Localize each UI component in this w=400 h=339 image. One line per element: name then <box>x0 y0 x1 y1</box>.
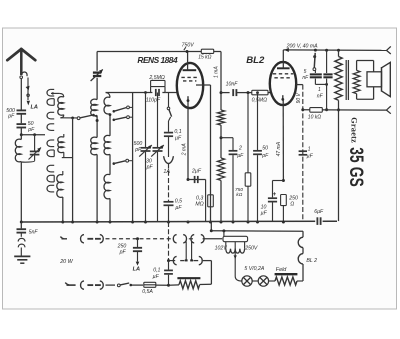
svg-text:10nF: 10nF <box>226 82 239 88</box>
svg-text:1: 1 <box>318 87 321 93</box>
svg-text:0,5MΩ: 0,5MΩ <box>252 97 268 103</box>
svg-text:102V: 102V <box>215 245 228 251</box>
svg-text:5nF: 5nF <box>29 229 39 235</box>
svg-text:BL 2: BL 2 <box>306 258 317 264</box>
svg-text:pF: pF <box>27 127 35 133</box>
svg-text:RENS 1884: RENS 1884 <box>137 55 178 65</box>
svg-text:200 V, 40 mA: 200 V, 40 mA <box>286 43 319 49</box>
svg-text:110pF: 110pF <box>146 98 161 104</box>
svg-text:nF: nF <box>317 94 324 100</box>
svg-text:µF: µF <box>307 153 314 159</box>
svg-text:50: 50 <box>262 146 268 152</box>
svg-text:0,3: 0,3 <box>196 195 203 201</box>
svg-text:20 W: 20 W <box>59 259 73 265</box>
svg-text:nF: nF <box>302 75 309 81</box>
svg-text:1 mA: 1 mA <box>214 66 220 78</box>
svg-text:90 V: 90 V <box>296 92 302 103</box>
svg-text:750V: 750V <box>182 43 195 49</box>
svg-text:2 mA: 2 mA <box>181 143 187 157</box>
svg-text:LA: LA <box>31 105 38 111</box>
svg-text:pF: pF <box>119 249 127 255</box>
svg-text:µF: µF <box>175 205 182 211</box>
svg-text:0,1: 0,1 <box>174 129 181 135</box>
svg-text:2,5MΩ: 2,5MΩ <box>148 75 165 81</box>
svg-text:pF: pF <box>146 164 154 170</box>
svg-text:kΩ: kΩ <box>236 192 242 198</box>
svg-text:pF: pF <box>134 147 142 153</box>
svg-text:µF: µF <box>261 210 268 216</box>
svg-text:0,5: 0,5 <box>175 198 182 204</box>
svg-text:6µF: 6µF <box>314 209 324 215</box>
svg-text:5: 5 <box>304 69 307 75</box>
svg-text:µF: µF <box>237 153 244 159</box>
svg-text:15 kΩ: 15 kΩ <box>198 55 211 61</box>
svg-text:5 V/0,2A: 5 V/0,2A <box>244 266 264 272</box>
svg-text:µF: µF <box>175 136 182 142</box>
svg-text:LA: LA <box>133 266 140 272</box>
svg-text:MΩ: MΩ <box>195 202 203 208</box>
svg-text:µF: µF <box>153 274 160 280</box>
svg-text:35 GS: 35 GS <box>345 147 367 187</box>
svg-text:BL2: BL2 <box>246 55 265 66</box>
svg-text:47 mA: 47 mA <box>276 141 282 156</box>
svg-text:250V: 250V <box>244 245 258 251</box>
svg-text:10 kΩ: 10 kΩ <box>308 114 321 120</box>
svg-text:2µF: 2µF <box>191 169 202 175</box>
svg-text:0,1: 0,1 <box>153 267 160 273</box>
svg-text:0,5A: 0,5A <box>142 289 153 295</box>
svg-text:1: 1 <box>308 146 311 152</box>
svg-text:Ω: Ω <box>290 202 294 208</box>
svg-text:Graetz: Graetz <box>350 117 359 143</box>
svg-text:Feld: Feld <box>276 267 287 273</box>
svg-text:+: + <box>273 191 277 198</box>
svg-text:pF: pF <box>261 153 269 159</box>
svg-text:1A: 1A <box>163 169 170 175</box>
svg-text:2: 2 <box>238 146 242 152</box>
svg-text:pF: pF <box>7 114 15 120</box>
svg-text:250: 250 <box>288 195 298 201</box>
